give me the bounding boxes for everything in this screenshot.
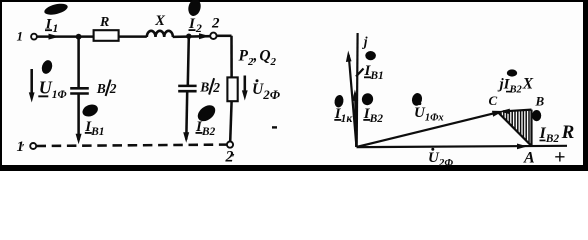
svg-text:I2: I2 [188,16,202,35]
svg-text:U2Φ: U2Φ [252,81,281,102]
svg-text:X: X [154,13,165,29]
svg-text:2: 2 [211,16,220,32]
svg-text:I1: I1 [45,16,59,35]
svg-text:2: 2 [212,80,220,95]
svg-text:A: A [523,150,535,167]
svg-text:IВ1: IВ1 [364,63,384,82]
svg-text:R: R [99,15,109,30]
svg-text:IВ2R: IВ2R [539,122,575,145]
svg-text:+: + [554,146,565,168]
svg-text:jIВ2X: jIВ2X [498,76,534,96]
svg-text:IВ1: IВ1 [84,119,104,138]
svg-text:U2Φ: U2Φ [428,150,453,169]
svg-text:В: В [199,80,209,95]
svg-text:1′: 1′ [17,139,25,155]
svg-text:2: 2 [109,81,117,96]
svg-text:I1к: I1к [334,106,354,125]
svg-text:IВ2: IВ2 [195,119,216,138]
svg-text:2′: 2′ [225,149,235,166]
svg-text:IВ2: IВ2 [363,106,384,125]
svg-text:j: j [362,34,368,49]
svg-text:U1Φх: U1Φх [414,105,444,124]
svg-text:C: C [489,93,498,108]
svg-text:P2,Q2: P2,Q2 [239,47,277,68]
svg-text:1: 1 [17,28,24,43]
svg-text:В: В [96,81,106,96]
svg-text:U1Φ: U1Φ [39,78,67,101]
svg-text:B: B [535,94,545,109]
